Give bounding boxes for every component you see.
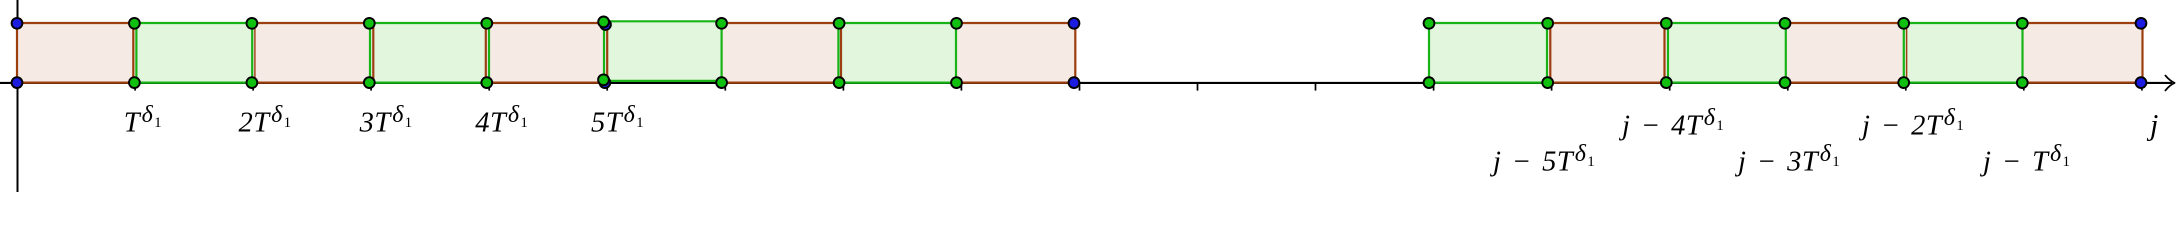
vertical edge left edge [2T,3T] (brown sliver) at 2T xyxy=(254,22,256,84)
axis tick 7 xyxy=(842,83,844,91)
svg-text:3Tδ1: 3Tδ1 xyxy=(359,102,413,139)
bottom edge [j-T,j] xyxy=(2022,81,2142,83)
x-axis arrowhead xyxy=(2165,76,2174,91)
vertical edge left edge [j-5T,j-4T] (brown) at j-5T xyxy=(1549,22,1551,84)
svg-text:j − 4Tδ1: j − 4Tδ1 xyxy=(1618,105,1724,142)
svg-text:j: j xyxy=(2146,109,2158,142)
svg-text:j − 3Tδ1: j − 3Tδ1 xyxy=(1734,141,1840,178)
axis tick 1 xyxy=(134,83,136,91)
bottom edge [6T,7T] xyxy=(722,81,840,83)
point 5T top (green) xyxy=(598,17,609,28)
vertical edge left edge [j-6T,j-5T] (green) xyxy=(1428,22,1430,84)
interval fill [j-2T,j-T] (green) xyxy=(1904,23,2025,83)
vertical edge left edge [3T,4T] (green) at 3T xyxy=(369,22,371,84)
point 2T bottom (green) xyxy=(247,77,258,88)
point 4T top (green) xyxy=(481,18,492,29)
point 5T top (blue, behind) xyxy=(600,19,611,30)
point j-2T top (green) xyxy=(1898,18,1909,29)
vertical edge right edge [j-6T,j-5T] (green) at j-5T xyxy=(1546,22,1548,84)
interval fill [5T,6T] (green) xyxy=(604,21,724,81)
interval fill [j-6T,j-5T] (green) xyxy=(1429,23,1550,83)
point 5T bottom (blue, behind) xyxy=(600,77,611,88)
point j bottom (blue) xyxy=(2136,77,2147,88)
svg-text:2Tδ1: 2Tδ1 xyxy=(239,102,292,139)
bottom edge [j-3T,j-2T] xyxy=(1785,81,1904,83)
point 2T top (green) xyxy=(247,18,258,29)
top edge [2T,3T] xyxy=(252,22,369,24)
top edge [6T,7T] xyxy=(722,22,840,24)
top edge [3T,4T] xyxy=(369,22,487,24)
point j-4T top (green) xyxy=(1661,18,1672,29)
point j-6T top (green) xyxy=(1424,18,1435,29)
svg-text:5Tδ1: 5Tδ1 xyxy=(591,102,644,139)
interval fill [j-5T,j-4T] (pink) xyxy=(1548,23,1669,83)
point 9T top (blue) xyxy=(1069,18,1080,29)
point j-1T bottom (green) xyxy=(2017,77,2028,88)
vertical edge right edge [0,T] (brown) at T xyxy=(132,22,134,84)
vertical edge left edge of [0,T] on y-axis (brown) xyxy=(16,22,18,84)
interval fill [j-T,j] (pink) xyxy=(2022,23,2143,83)
point j-5T top (green) xyxy=(1542,18,1553,29)
point origin bottom (blue) xyxy=(12,77,23,88)
point 4T bottom (green) xyxy=(481,77,492,88)
vertical edge right edge [j-T,j] (brown) at j xyxy=(2141,22,2143,84)
bottom edge [5T,6T] xyxy=(604,80,721,82)
axis tick 15 xyxy=(1787,83,1789,91)
top edge [4T,5T] xyxy=(487,22,604,24)
vertical edge left edge [7T,8T] (green) at 7T xyxy=(837,22,839,84)
interval fill [3T,4T] (green) xyxy=(369,23,489,83)
vertical edge right edge [j-3T,j-2T] (brown sliver) at j-2T xyxy=(1906,22,1908,84)
bottom edge [2T,3T] xyxy=(252,81,369,83)
top edge [j-4T,j-3T] xyxy=(1666,22,1785,24)
bottom edge [T,2T] xyxy=(134,81,252,83)
point 8T bottom (green) xyxy=(951,77,962,88)
axis tick 16 xyxy=(1905,83,1907,91)
axis tick 3 xyxy=(370,83,372,91)
vertical edge left edge [4T,5T] (brown) at 4T xyxy=(485,22,487,84)
axis tick 2 xyxy=(252,83,254,91)
axis tick 5 xyxy=(606,83,608,91)
vertical edge right edge [8T,9T] (brown) at 9T xyxy=(1074,22,1076,84)
point j-1T top (green) xyxy=(2017,18,2028,29)
top edge [j-3T,j-2T] xyxy=(1785,22,1904,24)
top edge [7T,8T] xyxy=(839,22,956,24)
vertical edge right edge [5T,6T] (green, raised) at 6T xyxy=(720,20,722,82)
svg-text:Tδ1: Tδ1 xyxy=(124,102,162,139)
vertical edge right edge [T,2T] (green) at 2T xyxy=(251,22,253,84)
svg-text:j − Tδ1: j − Tδ1 xyxy=(1979,141,2070,178)
point 6T bottom (green) xyxy=(716,77,727,88)
top edge [j-T,j] xyxy=(2022,22,2142,24)
vertical edge right edge [6T,7T] (brown) at 7T xyxy=(840,22,842,84)
top edge [j-5T,j-4T] xyxy=(1548,22,1667,24)
axis tick 9 xyxy=(1079,83,1081,91)
point j-5T bottom (green) xyxy=(1542,77,1553,88)
point j-6T bottom (green) xyxy=(1424,77,1435,88)
vertical edge left edge [j-2T,j-T] (green) at j-2T xyxy=(1903,22,1905,84)
axis tick 13 xyxy=(1551,83,1553,91)
bottom edge [j-4T,j-3T] xyxy=(1666,81,1785,83)
interval fill [8T,9T] (pink) xyxy=(957,23,1077,83)
vertical edge left edge [5T,6T] (green, raised) at 5T xyxy=(603,20,605,82)
point j-4T bottom (green) xyxy=(1661,77,1672,88)
vertical edge right edge [j-4T,j-3T] (green) at j-3T xyxy=(1785,22,1787,84)
bottom edge [j-6T,j-5T] xyxy=(1429,81,1548,83)
point 3T bottom (green) xyxy=(364,77,375,88)
bottom edge [8T,9T] xyxy=(957,81,1076,83)
point 1T top (green) xyxy=(129,18,140,29)
point j-2T bottom (green) xyxy=(1898,77,1909,88)
point 7T top (green) xyxy=(834,18,845,29)
point 3T top (green) xyxy=(364,18,375,29)
top edge [j-6T,j-5T] xyxy=(1429,22,1548,24)
interval fill [j-4T,j-3T] (green) xyxy=(1666,23,1787,83)
axis tick 10 xyxy=(1197,83,1199,91)
bottom edge [4T,5T] xyxy=(487,81,604,83)
axis tick 11 xyxy=(1315,83,1317,91)
axis tick 17 xyxy=(2023,83,2025,91)
bottom edge [j-2T,j-T] xyxy=(1904,81,2023,83)
top edge [0,T] xyxy=(17,22,134,24)
axis tick 18 xyxy=(2141,83,2143,91)
point 5T bottom (green) xyxy=(598,74,609,85)
axis tick 12 xyxy=(1433,83,1435,91)
point 8T top (green) xyxy=(951,18,962,29)
bottom edge [7T,8T] xyxy=(839,81,956,83)
axis tick 6 xyxy=(724,83,726,91)
x-axis (horizontal line) xyxy=(0,82,2172,84)
bottom edge [0,T] xyxy=(17,81,134,83)
bottom edge [j-5T,j-4T] xyxy=(1548,81,1667,83)
interval fill [7T,8T] (green) xyxy=(839,23,959,83)
vertical edge left edge [T,2T] (green) at T xyxy=(135,22,137,84)
interval fill [T,2T] (green) xyxy=(134,23,254,83)
axis tick 8 xyxy=(960,83,962,91)
interval fill [j-3T,j-2T] (pink) xyxy=(1785,23,1906,83)
point j-3T bottom (green) xyxy=(1780,77,1791,88)
point j-3T top (green) xyxy=(1780,18,1791,29)
point 9T bottom (blue) xyxy=(1069,77,1080,88)
point origin top (blue) xyxy=(12,18,23,29)
interval fill [6T,7T] (pink) xyxy=(722,23,842,83)
vertical edge left edge [j-4T,j-3T] (green) at j-4T xyxy=(1667,22,1669,84)
interval fill [4T,5T] (pink) xyxy=(487,23,607,83)
point 7T bottom (green) xyxy=(834,77,845,88)
vertical edge right edge [3T,4T] (green) at 4T xyxy=(488,22,490,84)
svg-text:4Tδ1: 4Tδ1 xyxy=(475,102,528,139)
axis tick 14 xyxy=(1669,83,1671,91)
bottom edge [3T,4T] xyxy=(369,81,487,83)
top edge [j-2T,j-T] xyxy=(1904,22,2023,24)
top edge [8T,9T] xyxy=(957,22,1076,24)
vertical edge right edge [7T,8T] (green) at 8T xyxy=(955,22,957,84)
vertical edge right edge [2T,3T] (brown) at 3T xyxy=(372,22,374,84)
interval fill [2T,3T] (pink) xyxy=(252,23,372,83)
point 6T top (green) xyxy=(716,18,727,29)
top edge [5T,6T] xyxy=(604,20,721,22)
point j top (blue) xyxy=(2136,18,2147,29)
axis tick 4 xyxy=(488,83,490,91)
svg-text:j − 2Tδ1: j − 2Tδ1 xyxy=(1858,105,1964,142)
point 1T bottom (green) xyxy=(129,77,140,88)
svg-text:j − 5Tδ1: j − 5Tδ1 xyxy=(1489,141,1595,178)
vertical edge right edge [j-2T,j-T] (green) at j-T xyxy=(2021,22,2023,84)
vertical edge right edge [4T,5T] (brown) at 5T xyxy=(606,22,608,84)
vertical edge right edge [j-5T,j-4T] (brown) at j-4T xyxy=(1663,22,1665,84)
top edge [T,2T] xyxy=(134,22,252,24)
y-axis (vertical line) xyxy=(17,0,19,192)
interval fill [0,T] (pink) xyxy=(17,23,137,83)
